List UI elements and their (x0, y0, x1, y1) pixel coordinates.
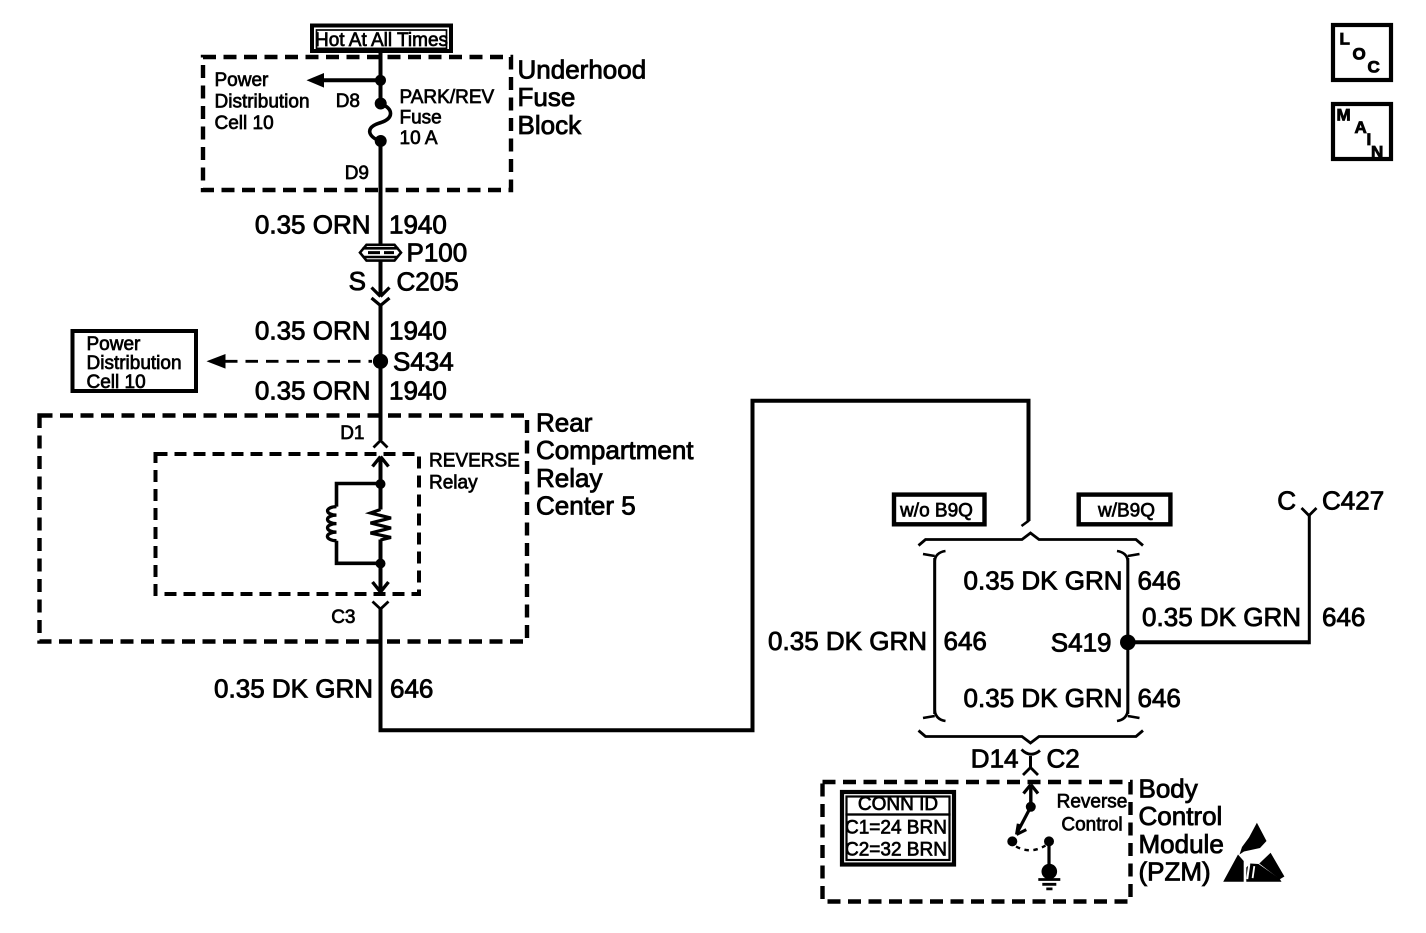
svg-text:646: 646 (390, 674, 433, 704)
bottom brace (options merge) (919, 731, 1144, 744)
svg-text:(PZM): (PZM) (1139, 857, 1211, 887)
wire: C205 to S434 (379, 304, 383, 361)
svg-text:Hot At All Times: Hot At All Times (315, 30, 448, 51)
svg-text:0.35 ORN: 0.35 ORN (255, 316, 371, 346)
wire label: 0.35 DK GRN 646 (to C427) (1142, 602, 1365, 632)
wire label: 0.35 DK GRN 646 (w/B9Q upper) (964, 566, 1181, 596)
svg-text:Body: Body (1139, 774, 1198, 804)
svg-text:0.35 DK GRN: 0.35 DK GRN (214, 674, 373, 704)
junction node top of relay coil (376, 479, 386, 489)
CONN ID table (842, 792, 954, 865)
wire: S434 to relay center (379, 361, 383, 440)
svg-text:C427: C427 (1322, 486, 1384, 516)
tag: MAIN box (1333, 104, 1391, 162)
svg-text:C205: C205 (397, 267, 459, 297)
svg-text:D9: D9 (345, 163, 369, 184)
svg-text:Cell 10: Cell 10 (215, 113, 274, 134)
wire: P100 to C205 (379, 260, 383, 296)
wire label: 0.35 DK GRN 646 (w/B9Q lower) (964, 683, 1181, 713)
svg-text:Block: Block (518, 110, 583, 140)
wire: fuse to P100 grommet (379, 141, 383, 245)
wire: branch to relay coil (337, 484, 381, 564)
option tag: w/B9Q box (1079, 495, 1171, 525)
svg-text:w/o B9Q: w/o B9Q (899, 501, 973, 522)
svg-text:C: C (1368, 58, 1380, 77)
relay terminal arrow (down) (373, 564, 389, 593)
svg-text:Power: Power (87, 334, 142, 355)
Underhood Fuse Block dashed box (203, 57, 511, 190)
svg-text:M: M (1337, 106, 1351, 125)
wire: S419 to C427 (1128, 640, 1309, 644)
svg-text:Relay: Relay (429, 472, 478, 493)
connector C205 (in-line, male arrow + female cup) (372, 288, 390, 306)
option tag: w/o B9Q box (894, 495, 985, 525)
svg-text:646: 646 (1138, 683, 1181, 713)
svg-text:Relay: Relay (536, 463, 602, 493)
svg-text:C: C (1277, 486, 1296, 516)
label: Underhood Fuse Block (518, 55, 647, 140)
wire label: 0.35 ORN 1940 (255, 210, 447, 240)
svg-text:1940: 1940 (389, 210, 447, 240)
wire label: 0.35 DK GRN 646 (w/o B9Q) (768, 626, 987, 656)
svg-text:Fuse: Fuse (400, 108, 442, 129)
fuse PARK/REV 10A (370, 98, 391, 148)
svg-text:O: O (1353, 45, 1366, 64)
grommet P100 (360, 245, 401, 261)
svg-text:0.35 DK GRN: 0.35 DK GRN (964, 566, 1123, 596)
tag: LOC box (1333, 25, 1391, 80)
svg-text:Underhood: Underhood (518, 55, 647, 85)
svg-text:Module: Module (1139, 829, 1224, 859)
value label: PARK/REV Fuse 10 A (400, 87, 495, 149)
svg-text:Reverse: Reverse (1057, 792, 1128, 813)
svg-text:646: 646 (944, 626, 987, 656)
wire label: 0.35 ORN 1940 (255, 316, 447, 346)
ESD sensitive device symbol (1223, 823, 1284, 882)
svg-text:w/B9Q: w/B9Q (1097, 501, 1155, 522)
svg-text:Fuse: Fuse (518, 82, 576, 112)
svg-text:Cell 10: Cell 10 (87, 372, 146, 393)
switch: reverse control (1007, 802, 1054, 850)
svg-text:D14: D14 (971, 744, 1019, 774)
svg-text:0.35 DK GRN: 0.35 DK GRN (1142, 602, 1301, 632)
wire label: 0.35 DK GRN 646 (214, 674, 433, 704)
pin S / label C205 (349, 266, 459, 297)
left option bracket (w/o B9Q path) (923, 551, 946, 721)
relay REVERSE inner dashed box (156, 454, 420, 594)
relay resistor R1 (371, 484, 392, 564)
svg-text:0.35 DK GRN: 0.35 DK GRN (768, 626, 927, 656)
junction node bottom of relay coil (376, 559, 386, 569)
svg-text:1940: 1940 (389, 316, 447, 346)
label: Reverse Control (1057, 792, 1128, 836)
svg-text:C1=24 BRN: C1=24 BRN (845, 818, 947, 839)
svg-text:C2=32 BRN: C2=32 BRN (845, 840, 947, 861)
svg-text:S: S (349, 266, 366, 296)
node: Hot At All Times box (312, 26, 451, 52)
svg-text:Rear: Rear (536, 408, 593, 438)
connector cup at C3 (373, 602, 389, 610)
svg-text:Center 5: Center 5 (536, 491, 636, 521)
svg-text:P100: P100 (407, 238, 468, 268)
connector C2 symbol (cup + chevron) (1022, 750, 1041, 776)
connector chevron at D1 (374, 441, 388, 448)
svg-text:Distribution: Distribution (215, 92, 310, 113)
connector cup at C427 (1302, 508, 1317, 516)
svg-text:C2: C2 (1047, 744, 1080, 774)
right option bracket (w/B9Q path) (1117, 551, 1140, 721)
svg-text:C3: C3 (331, 607, 355, 628)
splice S434 (373, 354, 388, 369)
svg-text:10 A: 10 A (400, 128, 438, 149)
svg-text:S434: S434 (393, 347, 454, 377)
svg-text:0.35 DK GRN: 0.35 DK GRN (964, 683, 1123, 713)
wire: branch to power distribution with arrow (307, 73, 381, 88)
svg-text:Power: Power (215, 70, 270, 91)
svg-text:A: A (1355, 118, 1367, 137)
wire: switch to ground (1047, 841, 1050, 865)
ground symbol (1038, 864, 1060, 889)
svg-text:0.35 ORN: 0.35 ORN (255, 210, 371, 240)
junction at fuse feed (375, 75, 386, 86)
label: Power Distribution Cell 10 (inside fuse block) (215, 70, 310, 134)
svg-text:REVERSE: REVERSE (429, 450, 520, 471)
svg-text:D8: D8 (336, 91, 360, 112)
relay coil L1 (327, 507, 336, 541)
svg-text:Compartment: Compartment (536, 435, 694, 465)
relay terminal arrow (up) (373, 457, 389, 485)
top brace (options split) (919, 533, 1144, 546)
label: Rear Compartment Relay Center 5 (536, 408, 694, 521)
svg-text:S419: S419 (1051, 628, 1112, 658)
wire: from Hot At All Times down to fuse (379, 51, 383, 104)
svg-text:Control: Control (1061, 815, 1122, 836)
wire: C3 down, right, up and over to BCM branch (381, 401, 1029, 731)
svg-text:D1: D1 (340, 423, 364, 444)
svg-text:Control: Control (1139, 801, 1223, 831)
svg-text:646: 646 (1322, 602, 1365, 632)
label: Body Control Module (PZM) (1139, 774, 1224, 887)
svg-text:Distribution: Distribution (87, 353, 182, 374)
dashed reference arrow to Power Distribution (207, 354, 373, 369)
svg-text:646: 646 (1138, 566, 1181, 596)
label: REVERSE Relay (429, 450, 520, 493)
svg-text:CONN ID: CONN ID (858, 794, 938, 815)
svg-text:L: L (1340, 30, 1350, 49)
wire label: 0.35 ORN 1940 (255, 375, 447, 405)
svg-text:1940: 1940 (389, 375, 447, 405)
svg-text:PARK/REV: PARK/REV (400, 87, 495, 108)
splice S419 (1120, 635, 1136, 651)
pin D14 / connector / pin C2 (971, 744, 1080, 774)
node: Power Distribution Cell 10 reference box (73, 331, 197, 393)
BCM input terminal arrow (up) (1024, 785, 1039, 808)
wire tail into brace cusp (1022, 521, 1030, 527)
svg-text:0.35 ORN: 0.35 ORN (255, 375, 371, 405)
svg-text:N: N (1371, 143, 1383, 162)
Body Control Module dashed box (823, 782, 1131, 902)
pin C / label C427 (1277, 486, 1384, 516)
Rear Compartment Relay Center 5 dashed box (40, 416, 528, 642)
